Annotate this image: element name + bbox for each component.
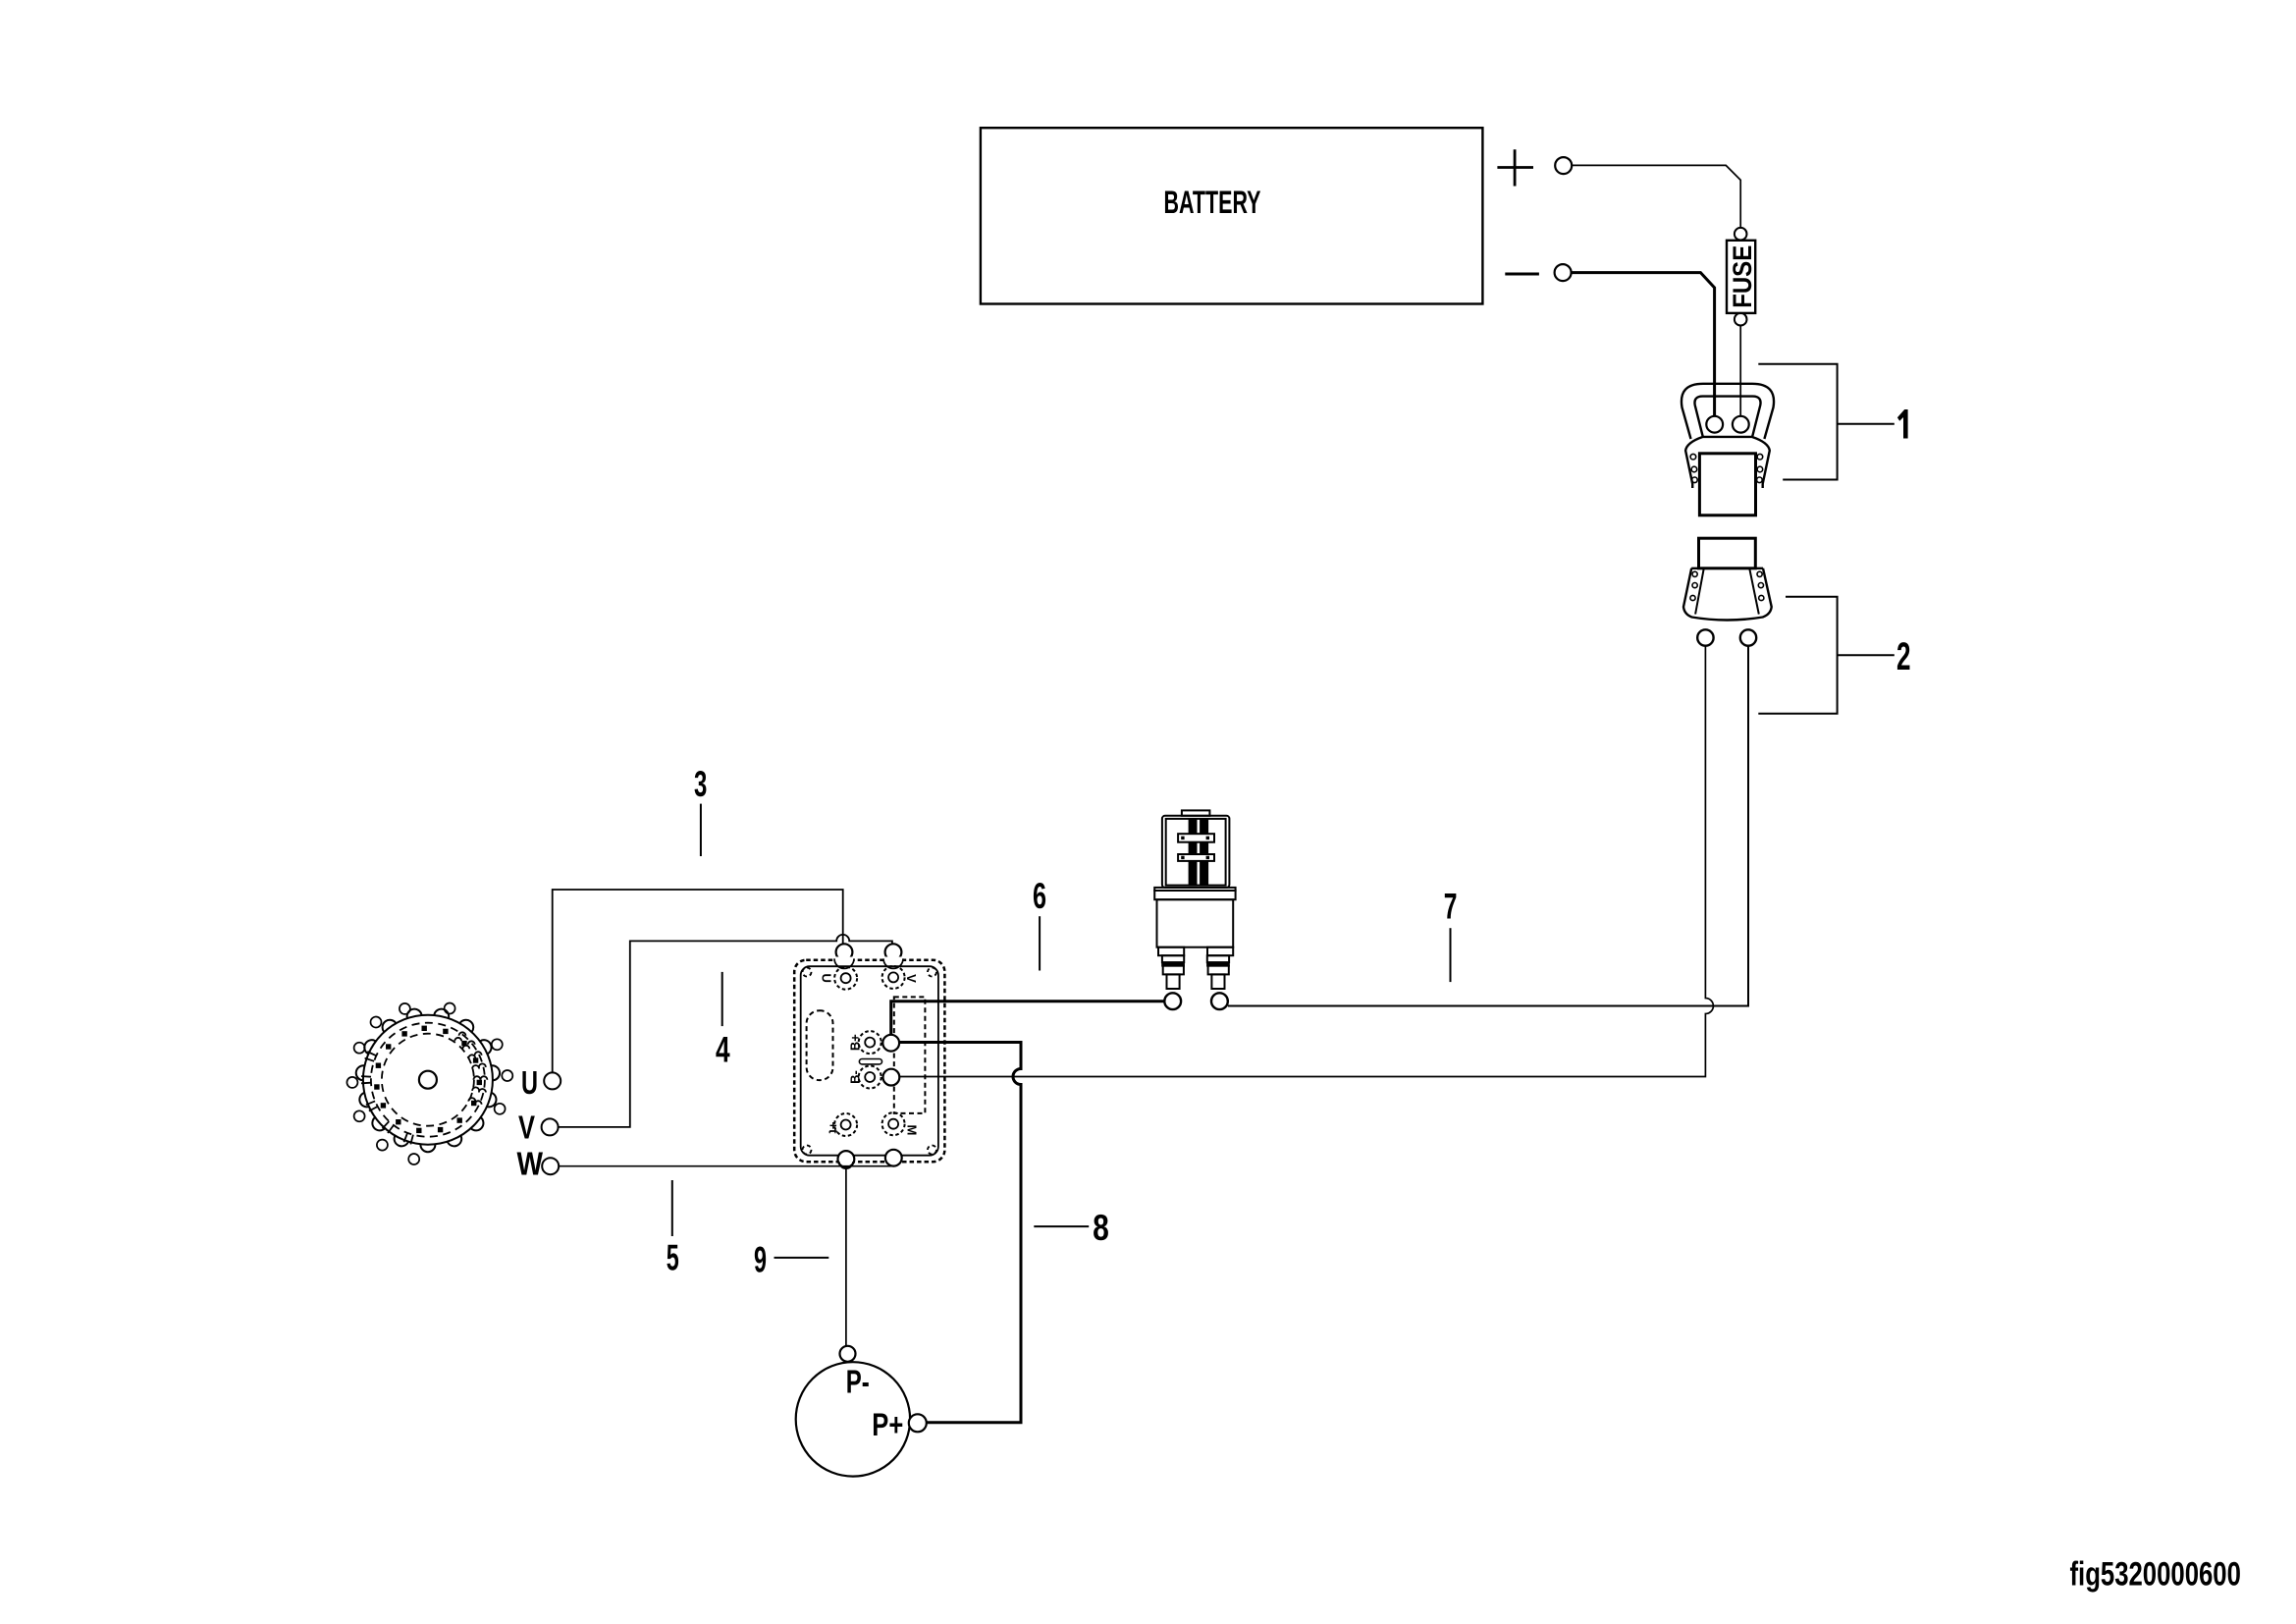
battery B1 — [981, 128, 1483, 303]
fuse FUSE — [1727, 228, 1757, 326]
svg-text:V: V — [904, 974, 919, 983]
svg-text:B+: B+ — [847, 1034, 862, 1051]
controller inner dashed block — [894, 997, 926, 1113]
svg-text:4: 4 — [716, 1029, 730, 1069]
connector 1 (plug, battery side) — [1682, 384, 1774, 515]
controller top-right terminal (from V wire) — [885, 944, 902, 960]
svg-text:9: 9 — [754, 1239, 767, 1279]
controller U1 (motor controller, dashed outline) — [794, 960, 944, 1162]
svg-text:fig5320000600: fig5320000600 — [2070, 1555, 2241, 1593]
battery positive terminal (+) — [1497, 149, 1572, 186]
svg-text:V: V — [518, 1110, 535, 1146]
controller terminal ring M — [882, 1112, 905, 1135]
svg-text:7: 7 — [1444, 887, 1458, 927]
svg-text:P-: P- — [846, 1363, 870, 1399]
controller edge notches under terminals — [834, 957, 903, 1169]
label 5 leader — [671, 1180, 673, 1236]
connector 2 (socket, harness side) — [1683, 538, 1772, 646]
wire 8: controller B+ right, down (hop over B- wire), to pump P+ — [899, 1043, 1021, 1423]
pump motor P (hydraulic pump) — [796, 1346, 927, 1477]
label 7 leader — [1450, 928, 1452, 982]
wire W: motor W to controller bottom-right — [559, 1165, 894, 1167]
relay / battery disconnect K1 — [1154, 810, 1235, 989]
terminal V circle — [542, 1118, 559, 1135]
relay terminal right — [1211, 993, 1228, 1009]
svg-text:2: 2 — [1896, 635, 1911, 678]
terminal U circle — [544, 1072, 561, 1089]
controller B- terminal — [883, 1069, 900, 1086]
svg-text:B-: B- — [847, 1070, 862, 1084]
controller B+ terminal — [882, 1035, 899, 1052]
wire 7: connector2 right pin to relay right terminal — [1228, 646, 1748, 1006]
label 8 leader — [1034, 1225, 1089, 1227]
wire 6: controller B+ up and right to relay left terminal — [891, 1001, 1165, 1035]
svg-text:BATTERY: BATTERY — [1164, 185, 1261, 220]
svg-text:3: 3 — [694, 764, 707, 804]
controller bottom-right terminal (W wire) — [885, 1150, 902, 1166]
svg-text:W: W — [517, 1146, 544, 1182]
svg-text:U: U — [521, 1064, 538, 1101]
wire U: motor U to controller top-left — [553, 890, 843, 1072]
controller inner cover plate — [801, 966, 938, 1155]
label 9 leader — [774, 1257, 829, 1259]
label 1 leader bracket — [1758, 364, 1895, 480]
label 4 leader — [721, 972, 723, 1026]
label 6 leader — [1039, 916, 1041, 970]
controller jumper link — [859, 1059, 881, 1064]
svg-text:U: U — [820, 974, 834, 983]
wire connector2 left pin to controller B- (with hop over wire 7) — [899, 646, 1713, 1077]
controller terminal ring B- — [859, 1066, 881, 1089]
motor M1 (traction motor stator, dashed) — [347, 1003, 512, 1165]
svg-text:6: 6 — [1033, 876, 1046, 916]
svg-text:M: M — [905, 1124, 920, 1135]
controller terminal ring t — [834, 1113, 857, 1136]
label 1 — [1897, 409, 1908, 439]
wire fuse to connector 1 right pin — [1739, 326, 1741, 416]
controller corner mounting tabs — [803, 968, 937, 1155]
terminal W circle — [542, 1158, 559, 1174]
controller left slot — [807, 1010, 833, 1080]
battery negative terminal (-) — [1505, 264, 1571, 281]
wire battery plus to fuse — [1572, 165, 1740, 228]
svg-text:+t: +t — [826, 1122, 840, 1135]
svg-text:5: 5 — [667, 1238, 679, 1278]
controller terminal ring B+ — [859, 1031, 881, 1054]
svg-text:P+: P+ — [872, 1407, 903, 1442]
svg-text:8: 8 — [1093, 1208, 1109, 1248]
wire 9: controller bottom-left to pump P- — [845, 1167, 847, 1346]
label 3 leader — [700, 804, 702, 856]
controller terminal ring V — [882, 966, 905, 989]
relay terminal left — [1164, 993, 1181, 1009]
controller top-left terminal (from U wire) — [836, 944, 853, 960]
controller terminal ring U — [834, 967, 857, 990]
wire battery minus to connector 1 left pin — [1572, 273, 1714, 416]
svg-text:FUSE: FUSE — [1728, 245, 1757, 308]
wire V: motor V to controller top-right (hop over U wire) — [559, 935, 892, 1127]
label 2 leader bracket — [1758, 597, 1895, 714]
controller bottom-left terminal (wire 9) — [838, 1151, 855, 1167]
